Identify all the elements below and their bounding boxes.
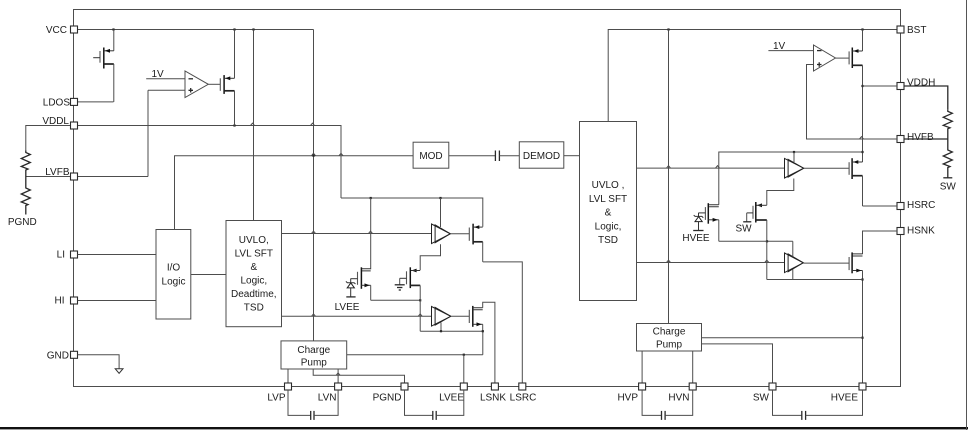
wire HVEE rail to buffer B4 top (792, 241, 794, 256)
svg-text:Charge: Charge (653, 327, 686, 338)
svg-text:HI: HI (55, 296, 65, 307)
block UVLO LVL SFT Logic Deadtime TSD (226, 221, 282, 327)
svg-text:HVEE: HVEE (682, 233, 710, 244)
ground symbol at M4 gate (395, 278, 405, 290)
wire HI (78, 300, 157, 302)
svg-text:LSRC: LSRC (510, 393, 537, 404)
wire VCC to left charge pump (313, 30, 315, 341)
wire charge pump to HVEE riser (702, 337, 863, 339)
svg-text:UVLO,: UVLO, (239, 235, 269, 246)
wire LDOS (78, 101, 114, 103)
op-amp U1 1V comparator (146, 69, 220, 98)
transistor T1 LDO pass (93, 30, 114, 102)
wire buffer B1 bottom to M4 drain (420, 244, 440, 270)
svg-text:MOD: MOD (419, 151, 442, 162)
IC boundary (74, 10, 901, 387)
pin SW (753, 383, 776, 404)
pin LSRC (510, 383, 537, 404)
wire HSNK row (863, 231, 898, 254)
node SW gate terminal (735, 213, 752, 235)
wire T8 source to HVEE pin (861, 271, 863, 384)
wire buffer B3 to HSRC gate (804, 167, 849, 169)
wire UVLO to buffer B1 (282, 231, 432, 233)
transistor T9 clamp with zener high side (698, 203, 718, 241)
svg-text:PGND: PGND (8, 217, 37, 228)
svg-text:HSRC: HSRC (907, 200, 935, 211)
pin PGND (373, 383, 408, 404)
block UVLO LVL SFT Logic TSD high side (580, 122, 637, 301)
wire HSRC row (863, 205, 898, 207)
pin LVEE (439, 383, 467, 404)
transistor T7 HSRC driver (849, 158, 862, 206)
transistor T8 HSNK driver (849, 252, 862, 273)
wire buffer B4 bottom to HVEE rail2 (792, 269, 794, 279)
svg-text:Logic: Logic (162, 277, 186, 288)
pin LVFB (45, 167, 77, 180)
diode zener D1 to LVEE (335, 279, 360, 313)
wire isolation cap to DEMOD (500, 155, 520, 157)
block Charge Pump high side (637, 324, 702, 352)
wire buffer B1 to M3 gate (451, 233, 470, 235)
wire UVLO to buffer B3 (637, 166, 785, 168)
wire LVFB row (26, 176, 148, 178)
transistor M3 source driver (469, 224, 482, 262)
wire MOD to isolation cap (449, 155, 495, 157)
wire UVLO to buffer B2 (282, 314, 432, 316)
svg-text:LVEE: LVEE (335, 302, 360, 313)
wire charge pump to SW pin (702, 344, 773, 383)
capacitor C3 HVP-HVN (642, 390, 693, 420)
svg-text:LSNK: LSNK (480, 393, 506, 404)
svg-text:Charge: Charge (297, 345, 330, 356)
pin LVP (267, 383, 291, 404)
wire BST rail (608, 28, 897, 121)
svg-text:VDDL: VDDL (42, 116, 69, 127)
resistor R1 (21, 151, 30, 177)
svg-text:LVL SFT: LVL SFT (589, 194, 627, 205)
transistor M1 clamp with zener (351, 198, 371, 300)
pin HVN (668, 383, 696, 404)
svg-text:Pump: Pump (301, 358, 328, 369)
svg-text:DEMOD: DEMOD (523, 151, 560, 162)
wire charge pump to HVP (641, 351, 643, 383)
capacitor isolation C-iso (495, 151, 499, 162)
resistor R4 (943, 139, 952, 178)
wire charge pump to LVP (287, 369, 289, 383)
pin VDDH (897, 78, 935, 90)
svg-text:SW: SW (940, 182, 957, 193)
pin HVEE (831, 383, 866, 404)
wire LVFB to comparator plus input (147, 90, 149, 176)
transistor M5 sink driver (469, 306, 482, 331)
wire HVEE rail2 (767, 279, 863, 281)
wire charge pump to PGND (313, 369, 404, 383)
svg-text:LVP: LVP (267, 393, 285, 404)
svg-text:HVN: HVN (668, 393, 689, 404)
wire M3 source to LSRC (483, 262, 523, 383)
pin HI (55, 296, 78, 307)
svg-text:HVFB: HVFB (907, 132, 934, 143)
ground arrow symbol (115, 369, 123, 374)
svg-text:LDOS: LDOS (43, 98, 71, 109)
wire UVLO to buffer B4 (637, 260, 785, 262)
pin LSNK (480, 383, 506, 404)
transistor T2 LDO to VDDL (220, 30, 234, 126)
pin GND (47, 350, 78, 361)
wire HVEE rail1 (719, 240, 793, 242)
svg-text:HVP: HVP (617, 393, 638, 404)
capacitor C4 SW-HVEE (773, 390, 863, 420)
pin VDDL (42, 116, 77, 129)
svg-text:SW: SW (735, 224, 752, 235)
svg-text:TSD: TSD (598, 235, 618, 246)
wire M1 source rail (371, 299, 422, 301)
pin HVFB (897, 132, 934, 143)
op-amp U2 1V comparator high side (768, 41, 849, 71)
svg-text:HSNK: HSNK (907, 226, 935, 237)
svg-text:PGND: PGND (373, 393, 402, 404)
diode zener D2 to HVEE (682, 213, 710, 244)
svg-text:LVN: LVN (318, 393, 337, 404)
pin HSNK (897, 226, 935, 237)
svg-text:1V: 1V (773, 41, 786, 52)
block Charge Pump low side (281, 341, 347, 369)
wire comparator plus to HVFB row (807, 65, 898, 140)
svg-text:GND: GND (47, 350, 69, 361)
svg-text:&: & (250, 262, 257, 273)
wire buffer B2 to M5 gate (451, 315, 469, 317)
pin LDOS (43, 98, 78, 109)
svg-text:LVEE: LVEE (439, 393, 464, 404)
capacitor C2 PGND-LVEE (405, 390, 464, 420)
wire M5 drain to LSNK (483, 302, 495, 383)
wire LI (78, 254, 157, 256)
block MOD (413, 142, 449, 168)
resistor R3 (943, 109, 952, 139)
wire charge pump to LVN (337, 369, 339, 383)
wire VDDH vertical rail (860, 65, 864, 162)
svg-text:I/O: I/O (167, 263, 181, 274)
wire charge pump to LVEE rail (347, 354, 483, 356)
block I/O Logic (156, 230, 191, 320)
svg-text:Deadtime,: Deadtime, (231, 289, 277, 300)
wire I/O Logic to UVLO (191, 274, 226, 276)
buffer B1 low side (432, 224, 451, 244)
wire LVEE pin riser (463, 355, 465, 383)
svg-text:HVEE: HVEE (831, 393, 859, 404)
wire buffer B4 to HSNK gate (803, 262, 849, 264)
svg-text:&: & (605, 208, 612, 219)
transistor M4 clamp with ground gate (400, 267, 421, 331)
wire VDDH row (863, 85, 898, 87)
transistor T6 BST to VDDH (849, 30, 862, 69)
wire T10 drain to buffer B3 bottom (767, 179, 794, 206)
capacitor C1 LVP-LVN (288, 390, 338, 420)
pin HVP (617, 383, 645, 404)
svg-text:Logic,: Logic, (240, 276, 267, 287)
svg-text:LVL SFT: LVL SFT (235, 249, 273, 260)
svg-text:Logic,: Logic, (595, 222, 622, 233)
wire DEMOD to right UVLO (564, 155, 580, 157)
svg-text:UVLO ,: UVLO , (592, 180, 625, 191)
buffer B2 low side (432, 307, 451, 327)
svg-text:TSD: TSD (244, 303, 264, 314)
svg-text:VCC: VCC (46, 25, 67, 36)
buffer B4 high side (785, 253, 804, 273)
block DEMOD (519, 142, 564, 168)
pin BST (897, 25, 926, 36)
wire HVFB external (904, 138, 948, 140)
svg-text:VDDH: VDDH (907, 78, 935, 89)
pin VCC (46, 25, 78, 36)
wire rail to buffer B1 top (440, 198, 442, 227)
wire VCC to left UVLO block (253, 30, 255, 221)
svg-text:1V: 1V (152, 69, 165, 80)
wire charge pump to HVN (692, 351, 694, 383)
buffer B3 high side (785, 158, 804, 178)
wire buffer B2 bottom to LVEE rail (440, 323, 442, 332)
svg-text:LVFB: LVFB (45, 167, 70, 178)
transistor T10 clamp with SW gate (747, 202, 767, 280)
wire GND to ground arrow (78, 355, 120, 369)
wire I/O Logic to MOD (175, 153, 414, 229)
pin LI (57, 250, 78, 261)
svg-text:LI: LI (57, 250, 65, 261)
svg-text:SW: SW (753, 393, 770, 404)
wire VCC rail (78, 28, 314, 30)
wire rail to buffer B3 top (793, 152, 795, 162)
wire VDDL to external divider (26, 126, 74, 151)
wire VDDH external divider (904, 86, 948, 109)
svg-text:BST: BST (907, 25, 926, 36)
pin HSRC (897, 200, 935, 211)
pin LVN (318, 383, 342, 404)
wire VDDL rail (74, 123, 341, 198)
resistor R2 (21, 177, 30, 215)
wire BST to right charge pump (668, 30, 670, 324)
wire VDDL driver top rail (341, 197, 483, 227)
wire LVEE rail low side (420, 330, 484, 355)
wire high side top rail (719, 151, 863, 205)
node SW terminal (940, 178, 957, 193)
svg-text:Pump: Pump (656, 340, 683, 351)
